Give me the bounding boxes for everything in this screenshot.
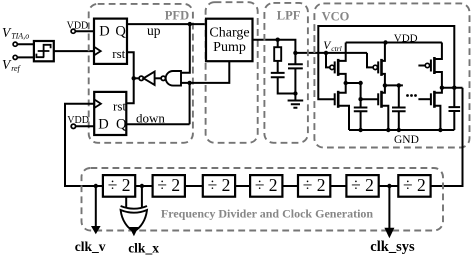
svg-text:PFD: PFD [165,8,189,22]
terminal Vref [13,55,17,59]
wire NAND input B from down [181,83,190,124]
divider D6 box [346,175,378,197]
svg-text:VDD: VDD [67,21,89,32]
transistor M1 PMOS [326,53,330,68]
VDD label (DFF1 D) [67,21,89,32]
DFF1 pin Q label [115,24,126,40]
svg-text:÷ 2: ÷ 2 [403,175,426,195]
wire charge pump out to LPF [253,40,368,53]
PFD label [165,8,189,22]
svg-text:clk_v: clk_v [75,239,106,254]
VDD label (DFF2 D) [67,115,89,126]
svg-text:clk_x: clk_x [128,241,159,256]
transistor M3 PMOS [367,53,373,68]
hysteresis symbol [36,45,50,57]
svg-text:clk_sys: clk_sys [370,239,415,255]
wire VCO feedback loop [318,26,454,99]
clk_v label [75,239,106,254]
comparator U1 (hysteresis) box [34,41,54,61]
clk_sys label [370,239,415,255]
VDD label (VCO) [394,32,418,44]
svg-text:÷ 2: ÷ 2 [157,175,180,195]
wire XOR input A [125,197,127,208]
node C2 branch junction [293,51,297,55]
svg-text:down: down [136,111,165,126]
divider D4 box [250,175,282,197]
svg-text:VDD: VDD [394,32,418,44]
wire XOR input B [141,186,143,208]
svg-text:Q: Q [115,24,126,40]
wire clk_v [95,186,97,227]
svg-text:rst: rst [112,46,125,61]
transistor M4 NMOS [377,93,379,105]
svg-text:D: D [98,117,108,133]
GND rail [349,129,454,131]
svg-text:Q: Q [116,117,127,133]
wire D6-D7 [379,185,399,187]
svg-text:ctrl: ctrl [331,44,341,53]
wire inverter to NAND [155,77,162,79]
VDD terminal (DFF1) [71,29,75,33]
transistor M5 PMOS [418,65,425,67]
wire DFF1 rst to reset line [126,52,133,103]
DFF2 pin rst label [113,98,126,113]
wire Vref to comparator [17,56,34,58]
wire rst line to inverter [134,77,139,79]
svg-text:TIA,o: TIA,o [11,32,29,41]
node LPF bottom junction [293,91,297,95]
node R branch junction [276,38,280,42]
LPF label [277,8,301,22]
resistor R1 [277,40,279,48]
wire stage2 output [385,84,403,86]
divider D3 box [203,175,235,197]
arrow clk_sys [384,228,394,238]
divider dashed block [82,168,444,231]
wire VDD to DFF2 D [76,125,95,127]
svg-text:GND: GND [394,134,419,146]
svg-text:VDD: VDD [67,115,89,126]
xor U7 [121,206,147,209]
wire down tap to charge pump bottom [190,61,230,83]
node NAND B junction [187,81,191,85]
GND label [394,134,419,146]
svg-text:D: D [99,24,109,40]
node VTIA,o label [2,25,29,41]
inverter U3 [139,76,143,80]
wire D3-D4 [235,185,250,187]
svg-text:÷ 2: ÷ 2 [303,175,326,195]
VDD rail [346,42,442,44]
wire comparator out to DFF1 clk [54,50,94,52]
down label [136,111,165,126]
arrow clk_x [129,227,138,236]
wire D4-D5 [282,185,298,187]
wire DFF2 clk from divider feedback [65,104,103,186]
svg-text:VCO: VCO [322,9,350,23]
flip-flop U2 (DFF1) box [94,19,127,64]
charge pump label [209,26,249,56]
divider D5 box [298,175,330,197]
wire D1-D2 [135,185,152,187]
svg-text:Frequency Divider and Clock Ge: Frequency Divider and Clock Generation [161,207,374,221]
node clk_v junction [94,184,98,188]
VDD terminal (DFF2) [71,124,75,128]
capacitor C1 [271,61,296,94]
DFF2 pin D label [98,117,108,133]
wire clk_sys [388,186,390,229]
terminal VTIA,o [13,42,17,46]
node Vref label [2,57,22,73]
charge pump U6 box [206,19,253,62]
wire VDD to DFF1 D [75,30,94,32]
svg-text:Charge: Charge [209,26,249,41]
arrow clk_v [91,226,101,234]
svg-text:÷ 2: ÷ 2 [108,175,131,195]
svg-text:÷ 2: ÷ 2 [255,175,278,195]
wire up: DFF1 Q to charge pump [127,23,206,25]
DFF1 pin D label [99,24,109,40]
svg-text:up: up [147,23,161,38]
wire VCO output to divider [431,88,463,186]
node S1 gate junction [324,51,328,55]
divider label [161,207,374,221]
capacitor C4 [392,85,406,130]
divider D2 box [153,175,185,197]
capacitor C5 [449,88,461,130]
capacitor C2 [288,53,303,101]
wire D5-D6 [330,185,346,187]
DFF1 pin rst label [112,46,125,61]
wire NAND input A from up [181,24,190,73]
node XOR input B junction [140,184,144,188]
DFF2 pin Q label [116,117,127,133]
up label [147,23,161,38]
wire D2-D3 [185,185,203,187]
VCO dashed block [314,3,469,147]
svg-text:LPF: LPF [277,8,301,22]
capacitor C3 [354,108,368,131]
transistor M2 NMOS [334,93,336,105]
charge pump dashed block [206,2,258,143]
node rst junction [132,76,136,80]
Vctrl label [323,40,341,53]
svg-text:rst: rst [113,98,126,113]
VCO label [322,9,350,23]
node up junction [188,22,192,26]
ground [288,101,304,108]
DFF2 clk triangle [94,99,101,108]
nand U4 [161,76,165,80]
wire node1 to NMOS2 gate [361,83,379,108]
node clk_sys junction [387,184,391,188]
wire VTIA,o to comparator [17,43,34,45]
ellipsis dots [406,94,409,97]
wire VCO output node [442,87,463,89]
divider D1 box [103,175,135,197]
clk_x label [128,241,159,256]
wire down: DFF2 Q [126,123,189,125]
DFF1 clk triangle [94,47,101,56]
transistor M6 NMOS [418,98,431,100]
svg-text:÷ 2: ÷ 2 [351,175,374,195]
divider D7 box [398,175,430,197]
svg-text:Pump: Pump [213,40,246,55]
flip-flop U5 (DFF2) box [94,92,126,135]
wire stage1 output [346,82,361,84]
LPF dashed block [264,3,308,143]
svg-text:÷ 2: ÷ 2 [208,175,231,195]
PFD dashed block [89,4,193,143]
